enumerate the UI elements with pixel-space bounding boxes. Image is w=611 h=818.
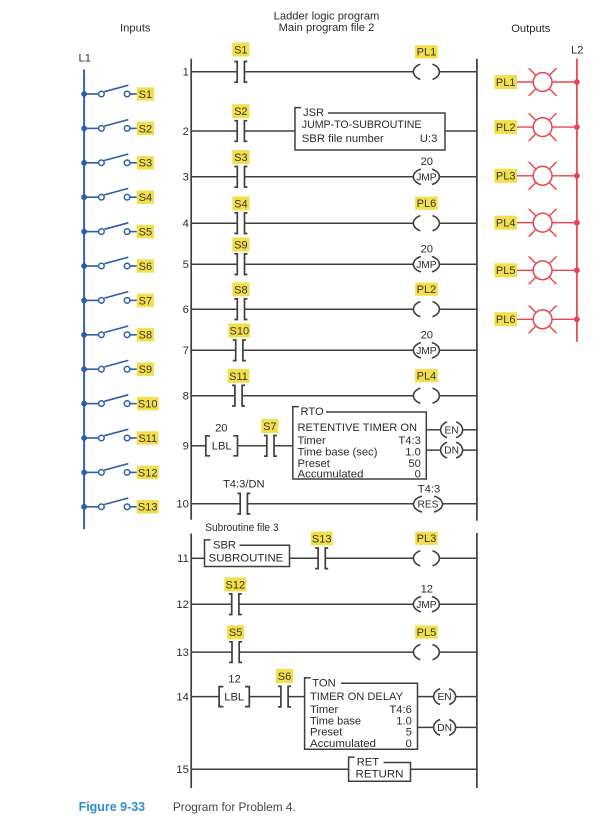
wire coil to right rail — [439, 222, 477, 224]
title ladder logic program — [274, 10, 380, 34]
wire JMP to right rail — [439, 349, 477, 351]
svg-text:S1: S1 — [234, 44, 247, 56]
label PL6 output — [494, 312, 517, 326]
label PL5 output — [494, 263, 517, 277]
svg-text:13: 13 — [176, 647, 188, 659]
svg-text:JUMP-TO-SUBROUTINE: JUMP-TO-SUBROUTINE — [302, 119, 422, 131]
svg-text:Outputs: Outputs — [511, 23, 551, 35]
svg-text:U:3: U:3 — [420, 133, 437, 145]
svg-text:12: 12 — [176, 599, 188, 611]
svg-text:RETENTIVE TIMER ON: RETENTIVE TIMER ON — [298, 422, 418, 434]
svg-text:JMP: JMP — [416, 600, 437, 611]
svg-text:9: 9 — [183, 441, 189, 453]
svg-text:PL5: PL5 — [496, 265, 516, 277]
left rail main program — [190, 59, 192, 520]
contact S8 — [234, 299, 247, 320]
wire coil to right rail — [439, 395, 477, 397]
contact S7 — [264, 436, 277, 457]
svg-text:S3: S3 — [234, 152, 247, 164]
wire TON to DN — [418, 726, 434, 728]
input switch S8 — [81, 326, 154, 342]
label PL3 output — [494, 169, 517, 183]
svg-text:S9: S9 — [139, 364, 152, 376]
contact S2 — [234, 121, 247, 142]
svg-text:6: 6 — [183, 304, 189, 316]
svg-text:5: 5 — [183, 259, 189, 271]
svg-text:JMP: JMP — [416, 346, 437, 357]
wire rail to RET block — [191, 768, 348, 770]
svg-text:S12: S12 — [138, 467, 158, 479]
svg-text:Accumulated: Accumulated — [298, 468, 364, 480]
jump instruction JMP 12 — [413, 597, 439, 612]
svg-text:S12: S12 — [226, 579, 246, 591]
wire label to lamp PL2 — [517, 126, 533, 128]
svg-text:1.0: 1.0 — [396, 715, 412, 727]
wire rail to contact S10 — [191, 349, 236, 351]
svg-text:10: 10 — [176, 499, 188, 511]
wire rail to LBL 12 — [191, 696, 219, 698]
svg-text:S8: S8 — [234, 284, 247, 296]
enable bit EN coil — [441, 422, 463, 438]
wire lamp PL4 to rail — [552, 222, 577, 224]
input switch S2 — [81, 120, 154, 136]
svg-text:4: 4 — [183, 218, 189, 230]
input switch S12 — [81, 464, 158, 480]
wire contact to coil PL5 — [239, 651, 413, 653]
svg-text:S13: S13 — [312, 533, 332, 545]
label S5 — [227, 625, 244, 639]
svg-text:PL3: PL3 — [496, 171, 516, 183]
svg-text:Subroutine file 3: Subroutine file 3 — [205, 522, 278, 534]
input switch S13 — [81, 498, 158, 514]
wire TON to EN — [418, 696, 434, 698]
svg-text:Timer: Timer — [298, 435, 326, 447]
contact S9 — [234, 254, 247, 275]
wire coil to right rail — [439, 71, 477, 73]
svg-text:JMP: JMP — [416, 172, 437, 183]
label PL6 — [415, 197, 438, 211]
svg-text:L1: L1 — [78, 53, 90, 65]
wire SBR to contact S13 — [290, 557, 319, 559]
wire LBL to contact S7 — [238, 445, 267, 447]
svg-text:DN: DN — [444, 446, 459, 457]
wire coil to right rail — [439, 308, 477, 310]
input switch S5 — [81, 223, 154, 239]
svg-text:EN: EN — [438, 692, 452, 703]
jump instruction JMP 20 — [413, 257, 439, 272]
wire lamp PL1 to rail — [552, 81, 577, 83]
right rail subroutine — [476, 533, 478, 788]
svg-text:11: 11 — [177, 553, 189, 565]
svg-text:S7: S7 — [263, 421, 276, 433]
RTO retentive timer on block — [293, 406, 427, 480]
svg-text:S10: S10 — [230, 325, 250, 337]
label PL1 output — [494, 75, 517, 89]
input switch S7 — [81, 292, 154, 308]
label PL3 — [415, 532, 438, 546]
wire rail to LBL — [191, 445, 206, 447]
svg-text:RET: RET — [357, 757, 380, 769]
input switch S1 — [81, 85, 154, 101]
junction dot PL4 — [574, 220, 580, 226]
svg-text:3: 3 — [183, 172, 189, 184]
wire rail to contact S9 — [191, 263, 237, 265]
label PL4 output — [494, 216, 517, 230]
wire rail to contact S2 — [191, 130, 237, 132]
wire lamp PL3 to rail — [552, 175, 577, 177]
svg-text:S8: S8 — [139, 330, 152, 342]
svg-text:Inputs: Inputs — [120, 23, 151, 35]
reset instruction RES T4:3 — [414, 496, 443, 512]
wire contact S7 to RTO block — [274, 445, 293, 447]
svg-text:SUBROUTINE: SUBROUTINE — [209, 552, 284, 564]
svg-text:JMP: JMP — [416, 260, 437, 271]
svg-text:20: 20 — [421, 156, 433, 168]
svg-text:S2: S2 — [139, 123, 152, 135]
wire RET to right rail — [411, 768, 477, 770]
done bit DN coil — [441, 442, 463, 458]
label S4 — [232, 196, 249, 210]
enable bit EN coil TON — [434, 689, 456, 705]
wire lamp PL2 to rail — [552, 126, 577, 128]
wire EN to right rail — [456, 696, 477, 698]
svg-text:S4: S4 — [139, 192, 152, 204]
svg-text:T4:3/DN: T4:3/DN — [223, 479, 265, 491]
svg-text:Ladder logic program: Ladder logic program — [274, 10, 380, 22]
svg-text:Timer: Timer — [310, 704, 338, 716]
svg-text:PL6: PL6 — [496, 314, 516, 326]
contact S1 — [234, 62, 247, 83]
wire rail to contact S11 — [191, 395, 235, 397]
svg-text:Accumulated: Accumulated — [310, 738, 376, 750]
input switch S10 — [81, 395, 158, 411]
junction dot PL6 — [574, 316, 580, 322]
wire contact to coil PL4 — [242, 395, 413, 397]
svg-text:S2: S2 — [234, 106, 247, 118]
label PL5 — [415, 626, 438, 640]
input switch S3 — [81, 154, 154, 170]
wire EN to right rail — [463, 429, 477, 431]
wire JMP to right rail — [439, 176, 477, 178]
svg-text:1: 1 — [183, 67, 189, 79]
label S11 — [228, 369, 250, 383]
svg-text:T4:3: T4:3 — [418, 483, 440, 495]
contact S3 — [234, 167, 247, 188]
svg-text:RETURN: RETURN — [356, 769, 404, 781]
wire LBL to contact S6 — [249, 696, 281, 698]
coil PL2 — [413, 302, 439, 317]
wire contact to JMP — [245, 263, 414, 265]
svg-text:S11: S11 — [229, 371, 248, 383]
wire contact S6 to TON block — [288, 696, 305, 698]
junction dot PL5 — [574, 267, 580, 273]
svg-text:SBR file number: SBR file number — [302, 133, 384, 145]
label PL4 — [415, 369, 438, 383]
wire RTO to EN — [426, 429, 440, 431]
wire contact to JMP — [245, 176, 414, 178]
wire rail to contact S5 — [191, 651, 232, 653]
contact S4 — [234, 213, 247, 234]
wire label to lamp PL6 — [517, 318, 533, 320]
input switch S11 — [81, 429, 158, 445]
input switch S6 — [81, 257, 154, 273]
wire contact S2 to JSR block — [244, 130, 295, 132]
svg-text:PL1: PL1 — [496, 77, 516, 89]
contact S6 — [278, 686, 291, 707]
svg-text:S6: S6 — [139, 261, 152, 273]
wire label to lamp PL1 — [517, 81, 533, 83]
left rail subroutine — [190, 534, 192, 789]
wire rail to SBR block — [191, 557, 204, 559]
label PL2 — [415, 283, 438, 297]
label PL1 — [415, 45, 438, 59]
right rail main program — [476, 59, 478, 521]
svg-text:S1: S1 — [139, 89, 152, 101]
input switch S4 — [81, 188, 154, 204]
svg-text:S7: S7 — [139, 295, 152, 307]
SBR subroutine block — [205, 540, 290, 567]
coil PL4 — [413, 388, 439, 403]
svg-text:12: 12 — [421, 584, 433, 596]
wire DN to right rail — [463, 449, 477, 451]
svg-text:LBL: LBL — [212, 441, 232, 453]
svg-text:S3: S3 — [139, 158, 152, 170]
jump instruction JMP 20 — [413, 343, 439, 358]
pilot lamp PL3 — [529, 162, 557, 190]
svg-text:PL5: PL5 — [417, 627, 437, 639]
pilot lamp PL2 — [529, 113, 557, 141]
contact S12 — [229, 594, 242, 615]
coil PL6 — [413, 216, 439, 231]
coil PL1 — [413, 64, 439, 79]
input switch S9 — [81, 360, 154, 376]
wire contact to JMP — [239, 603, 414, 605]
svg-text:T4:3: T4:3 — [398, 435, 420, 447]
svg-text:14: 14 — [176, 691, 188, 703]
wire label to lamp PL4 — [517, 222, 533, 224]
svg-text:PL6: PL6 — [417, 198, 437, 210]
wire label to lamp PL5 — [517, 269, 533, 271]
label S12 — [224, 577, 246, 591]
wire DN to right rail — [456, 726, 477, 728]
svg-text:20: 20 — [421, 330, 433, 342]
coil PL3 — [413, 551, 439, 566]
svg-text:0: 0 — [415, 468, 421, 480]
wire coil PL3 to right rail — [439, 557, 477, 559]
svg-text:Preset: Preset — [310, 727, 343, 739]
svg-text:Time base: Time base — [310, 715, 361, 727]
svg-text:S5: S5 — [229, 627, 242, 639]
jump instruction JMP 20 — [413, 169, 439, 184]
svg-text:S6: S6 — [278, 671, 291, 683]
wire rail to contact S12 — [191, 603, 232, 605]
wire label to lamp PL3 — [517, 175, 533, 177]
contact T4:3/DN — [237, 493, 250, 514]
label S7 — [261, 419, 278, 433]
pilot lamp PL6 — [529, 305, 557, 333]
svg-text:S10: S10 — [138, 399, 158, 411]
contact S10 — [233, 340, 246, 361]
svg-text:15: 15 — [176, 764, 188, 776]
svg-text:0: 0 — [406, 738, 412, 750]
svg-text:EN: EN — [445, 425, 459, 436]
svg-text:S11: S11 — [138, 433, 157, 445]
pilot lamp PL1 — [529, 68, 557, 96]
wire contact to coil PL1 — [244, 71, 413, 73]
wire lamp PL6 to rail — [552, 318, 577, 320]
junction dot PL3 — [574, 173, 580, 179]
wire contact to RES — [247, 503, 413, 505]
svg-text:2: 2 — [183, 126, 189, 138]
wire rail to contact S4 — [191, 222, 237, 224]
svg-text:8: 8 — [183, 391, 189, 403]
svg-text:20: 20 — [215, 423, 227, 435]
wire contact to coil PL6 — [245, 222, 414, 224]
wire contact S13 to coil PL3 — [325, 557, 413, 559]
pilot lamp PL4 — [529, 209, 557, 237]
svg-text:RTO: RTO — [301, 406, 325, 418]
svg-text:Figure 9-33: Figure 9-33 — [79, 800, 146, 814]
wire JMP to right rail — [439, 263, 477, 265]
junction dot PL2 — [574, 124, 580, 130]
svg-text:Main program file 2: Main program file 2 — [279, 22, 375, 34]
label S9 — [232, 237, 249, 251]
svg-text:Time base (sec): Time base (sec) — [298, 446, 378, 458]
label S1 — [232, 43, 249, 57]
RET return block — [349, 757, 411, 782]
svg-text:LBL: LBL — [224, 692, 244, 704]
pilot lamp PL5 — [529, 256, 557, 284]
output power rail L2 — [576, 59, 578, 342]
wire coil to right rail — [439, 651, 477, 653]
svg-text:PL1: PL1 — [417, 47, 437, 59]
svg-text:S9: S9 — [234, 239, 247, 251]
wire rail to contact S3 — [191, 176, 237, 178]
wire rail to contact S8 — [191, 308, 237, 310]
svg-text:RES: RES — [418, 500, 439, 511]
svg-text:PL4: PL4 — [496, 218, 516, 230]
junction dot PL1 — [574, 79, 580, 85]
label S10 — [228, 324, 250, 338]
svg-text:JSR: JSR — [303, 107, 324, 119]
svg-text:TIMER ON DELAY: TIMER ON DELAY — [310, 691, 404, 703]
wire contact to JMP — [243, 349, 414, 351]
svg-text:PL3: PL3 — [417, 533, 437, 545]
label S13 — [311, 532, 333, 546]
wire JSR block to right rail — [445, 130, 477, 132]
svg-text:TON: TON — [312, 677, 335, 689]
svg-text:5: 5 — [406, 727, 412, 739]
label S8 — [232, 282, 249, 296]
input power rail L1 — [83, 70, 85, 530]
wire RTO to DN — [426, 449, 440, 451]
wire rail to contact S1 — [191, 71, 237, 73]
label PL2 output — [494, 120, 517, 134]
svg-text:SBR: SBR — [213, 540, 236, 552]
contact S13 — [315, 548, 328, 569]
label S3 — [232, 150, 249, 164]
TON timer on delay block — [305, 677, 418, 750]
contact S5 — [229, 642, 242, 663]
label instruction LBL 20 — [206, 423, 238, 456]
svg-text:7: 7 — [183, 345, 189, 357]
svg-text:20: 20 — [421, 244, 433, 256]
wire lamp PL5 to rail — [552, 269, 577, 271]
wire contact to coil PL2 — [245, 308, 414, 310]
wire JMP to right rail — [439, 603, 477, 605]
svg-text:L2: L2 — [571, 45, 583, 57]
label instruction LBL 12 — [219, 673, 249, 706]
svg-text:Program for Problem 4.: Program for Problem 4. — [173, 800, 296, 814]
wire rail to contact T4:3/DN — [191, 503, 240, 505]
label S2 — [232, 104, 249, 118]
label S6 — [276, 669, 293, 683]
svg-text:DN: DN — [437, 723, 452, 734]
svg-text:1.0: 1.0 — [405, 446, 421, 458]
JSR jump-to-subroutine block — [295, 107, 445, 150]
coil PL5 — [413, 645, 439, 660]
done bit DN coil TON — [434, 720, 456, 736]
svg-text:S13: S13 — [138, 502, 158, 514]
svg-text:12: 12 — [228, 673, 240, 685]
wire RES to right rail — [443, 503, 477, 505]
svg-text:S5: S5 — [139, 227, 152, 239]
svg-text:S4: S4 — [234, 198, 247, 210]
svg-text:PL2: PL2 — [496, 122, 516, 134]
svg-text:T4:6: T4:6 — [389, 704, 411, 716]
svg-text:PL2: PL2 — [417, 284, 437, 296]
svg-text:PL4: PL4 — [417, 371, 437, 383]
contact S11 — [232, 385, 245, 406]
